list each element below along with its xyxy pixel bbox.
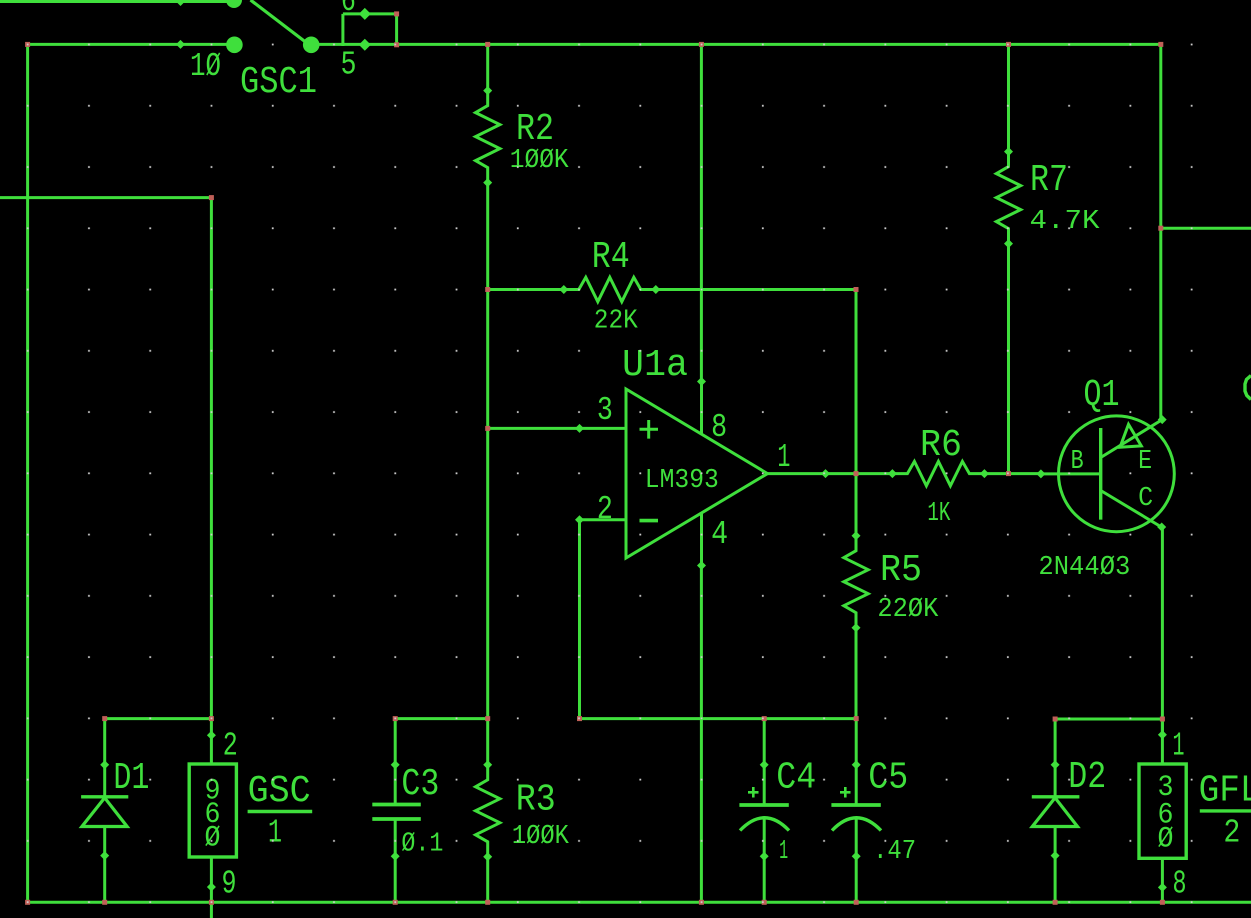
- capacitor C5 curved plate: [832, 818, 881, 831]
- op-amp pin 4 stub: [700, 513, 703, 566]
- capacitor C5 top plate: [831, 803, 880, 807]
- diode D2 pins: [1054, 765, 1057, 797]
- capacitor C3 plates: [372, 803, 421, 807]
- junction collector node: [1160, 717, 1165, 722]
- wire ground rail: [28, 901, 1251, 904]
- junction GSC upper corner: [209, 195, 214, 200]
- op-amp pin 8 stub: [700, 382, 703, 435]
- wire right stub to edge: [1161, 227, 1251, 230]
- junction D1 corner: [102, 716, 107, 721]
- junction pin3 node: [485, 426, 490, 431]
- wire R4 left: [488, 288, 564, 291]
- switch GSC1 pole dot top: [226, 0, 242, 8]
- op-amp minus input symbol: [640, 519, 659, 523]
- connector pin 9 marker: [207, 883, 216, 892]
- junction ground left corner: [25, 900, 30, 905]
- wire pin8 supply vertical: [700, 44, 703, 381]
- wire GSC upper horizontal: [0, 196, 213, 199]
- transistor Q1 base lead: [1041, 472, 1101, 475]
- transistor Q1 circle: [1059, 416, 1175, 532]
- wire R3 to ground: [486, 856, 489, 903]
- diode D1 pins: [103, 765, 106, 797]
- junction V+ left corner: [25, 42, 30, 47]
- pin end marker pin 5: [359, 39, 371, 51]
- wire D1 horizontal: [103, 717, 213, 720]
- junction R3 ground: [485, 900, 490, 905]
- wire R6 to Q1 base: [985, 472, 1041, 475]
- junction pin4 ground: [699, 900, 704, 905]
- junction C3 ground: [393, 900, 398, 905]
- junction pin2 corner: [577, 716, 582, 721]
- wire GSC pin2 stub: [210, 719, 213, 764]
- junction GSC pin9 ground: [209, 900, 214, 905]
- junction R3 top node: [485, 716, 490, 721]
- wire pin3 input: [488, 427, 580, 430]
- connector pin 8 marker: [1158, 883, 1167, 892]
- wire jumper right: [395, 14, 398, 46]
- junction C4 ground: [762, 900, 767, 905]
- junction D2 ground: [1053, 900, 1058, 905]
- junction D2 corner: [1053, 717, 1058, 722]
- capacitor C4 pins: [763, 765, 766, 805]
- partial glyph at right edge: [1245, 376, 1251, 400]
- wire C5 drop: [855, 719, 858, 766]
- wire D2 horizontal: [1054, 718, 1164, 721]
- wire C3 drop: [394, 717, 397, 766]
- wire C4 to ground: [763, 817, 766, 904]
- junction C3 corner: [393, 716, 398, 721]
- connector GFL body (360): [1139, 764, 1186, 858]
- wire D2 to ground: [1054, 827, 1057, 904]
- junction C4 top node: [762, 716, 767, 721]
- wire top rail: [0, 0, 238, 3]
- switch GSC1 contact 10 dot: [226, 37, 243, 54]
- transistor Q1 emitter arrow: [1120, 424, 1141, 447]
- transistor Q1 emitter lead: [1101, 420, 1163, 458]
- wire V+ rail: [28, 43, 235, 46]
- wire R7 to base node: [1007, 244, 1010, 476]
- wire R5 to rail: [855, 628, 858, 720]
- junction rail right corner: [1158, 42, 1163, 47]
- resistor R7: [996, 152, 1020, 244]
- resistor R3: [476, 765, 500, 857]
- transistor Q1 base bar: [1099, 428, 1102, 520]
- wire C3 horizontal: [395, 717, 489, 720]
- connector pin 2 marker: [207, 731, 216, 740]
- junction right stub: [1158, 226, 1163, 231]
- wire jumper top: [343, 12, 397, 15]
- junction R4 left node: [485, 287, 490, 292]
- wire R4 right: [656, 288, 857, 291]
- junction output node: [854, 471, 859, 476]
- junction R4 right corner: [854, 287, 859, 292]
- junction R7 top: [1006, 42, 1011, 47]
- junction C5 ground: [854, 900, 859, 905]
- op-amp pin 3 stub: [580, 427, 627, 430]
- wire R4-R5 vertical: [855, 288, 858, 537]
- op-amp pin 2 stub: [580, 518, 627, 521]
- wire GFL pin1 stub: [1161, 719, 1164, 764]
- capacitor C4 top plate: [739, 803, 788, 807]
- connector GSC1 body (960): [189, 764, 236, 857]
- wire pin2 bottom rail: [578, 717, 858, 720]
- capacitor C3 pins: [394, 765, 397, 804]
- wire output to R6: [826, 472, 893, 475]
- junction pin8 rail: [699, 42, 704, 47]
- wire R2 to R3 vertical: [486, 181, 489, 766]
- junction pin5 node: [394, 42, 399, 47]
- diode D1 triangle: [82, 798, 127, 827]
- wire D2 drop: [1054, 719, 1057, 766]
- resistor R5: [844, 536, 868, 628]
- wire pin2 vertical: [578, 520, 581, 720]
- wire R7 branch vertical: [1007, 44, 1010, 152]
- wire collector vertical: [1161, 527, 1164, 736]
- pin end marker pin 6: [359, 8, 371, 20]
- capacitor C4 curved plate: [740, 818, 789, 831]
- junction D1 ground: [102, 900, 107, 905]
- resistor R4: [564, 277, 656, 301]
- wire C5 to ground: [855, 817, 858, 904]
- pin end marker pin 10: [176, 40, 185, 49]
- diode D2 cathode bar: [1032, 795, 1080, 798]
- wire right branch vertical: [1159, 44, 1162, 420]
- capacitor C5 plus sign: [840, 787, 851, 798]
- resistor R6: [892, 461, 984, 485]
- junction GSC pin2 node: [209, 716, 214, 721]
- wire pin4 ground vertical: [700, 566, 703, 904]
- wire D1 drop: [103, 719, 106, 766]
- switch GSC1 lever: [251, 0, 308, 44]
- transistor Q1 collector lead: [1101, 491, 1163, 528]
- wire GSC pin9 below rail: [210, 857, 213, 918]
- junction C5 top node: [854, 716, 859, 721]
- junction jumper top corner: [394, 11, 399, 16]
- connector pin 1 marker: [1158, 730, 1167, 739]
- wire rail to R2: [486, 44, 489, 91]
- capacitor C4 plus sign: [748, 787, 759, 798]
- junction GFL pin8 ground: [1160, 900, 1165, 905]
- wire GFL pin8 stub: [1161, 858, 1164, 904]
- diode D1 cathode bar: [81, 795, 128, 798]
- wire jumper left: [341, 14, 344, 46]
- op-amp U1a body: [626, 389, 768, 558]
- wire D1 to ground: [103, 827, 106, 904]
- op-amp pin 1 stub: [768, 472, 826, 475]
- junction R2 top: [485, 42, 490, 47]
- diode D2 triangle: [1032, 798, 1077, 827]
- wire GSC branch vertical: [210, 196, 213, 720]
- junction R7 bottom node: [1006, 471, 1011, 476]
- wire left branch vertical: [26, 43, 29, 904]
- resistor R2: [476, 91, 500, 183]
- pin end marker top rail: [176, 0, 185, 6]
- switch GSC1 contact 5 dot: [303, 37, 320, 54]
- wire V+ rail right of switch: [319, 43, 1161, 46]
- wire C4 drop: [763, 719, 766, 766]
- op-amp plus input symbol: [640, 420, 659, 439]
- capacitor C5 pins: [855, 765, 858, 805]
- wire C3 to ground: [394, 819, 397, 904]
